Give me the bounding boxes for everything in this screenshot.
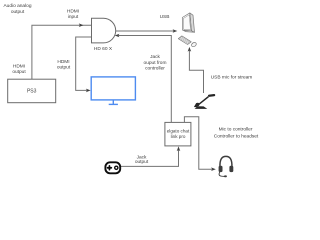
arrowhead right into headset [211, 167, 216, 171]
keyboard [178, 36, 191, 45]
capture card HD 60 X (AND-gate shape) [92, 18, 116, 43]
computer icon (3D monitor + keyboard + mouse) [178, 13, 196, 47]
svg-text:HDMI: HDMI [13, 64, 25, 70]
svg-text:output: output [135, 159, 149, 165]
svg-text:controller: controller [145, 66, 165, 72]
svg-text:PS3: PS3 [27, 89, 37, 95]
wire W2: HD60X HDMI output down-left to blue TV [76, 37, 92, 90]
wire W6: elgato chat link top to headset (mic/controller loop) [184, 117, 212, 170]
wire W7: controller jack output right and up into elgato box bottom [121, 150, 179, 167]
wire W5: elgato chat link top-left up to HD60X right input [118, 36, 171, 123]
right ear cup [229, 166, 233, 172]
mic joint [196, 103, 199, 106]
controller icon (pill with d-pad and button) [105, 162, 120, 173]
blue TV [91, 77, 135, 105]
svg-text:ouput from: ouput from [144, 60, 167, 66]
mic head capsule [208, 94, 216, 97]
boom mic capsule [224, 175, 227, 177]
svg-text:output: output [12, 69, 26, 75]
svg-text:link pro: link pro [171, 134, 186, 139]
inner screen [183, 15, 190, 30]
svg-text:output: output [11, 9, 25, 15]
wire W3: HD60X USB output right to computer [116, 30, 174, 32]
headset icon [219, 156, 234, 177]
button ring [115, 166, 118, 169]
mouse [191, 43, 196, 47]
monitor side depth [190, 13, 195, 32]
svg-text:Controller to headset: Controller to headset [214, 134, 259, 140]
monitor bottom depth [183, 30, 195, 32]
svg-text:output: output [57, 65, 71, 71]
svg-text:Mic to controller: Mic to controller [219, 127, 253, 133]
mic base [195, 106, 208, 109]
arrowhead down into elgato box top [183, 123, 187, 128]
svg-text:Jack: Jack [150, 54, 160, 60]
arrowhead left into gate curve [115, 34, 120, 38]
svg-text:Audio analog: Audio analog [3, 3, 31, 9]
arrowhead into computer [173, 29, 178, 33]
wire W1: PS3 HDMI output up and right to HD60X HDMI input [32, 25, 91, 79]
left ear cup [219, 166, 223, 172]
arrowhead up into computer bottom [188, 47, 192, 52]
d-pad plus [107, 165, 113, 171]
svg-text:HD 60 X: HD 60 X [94, 46, 113, 52]
arrowhead up into elgato box bottom [177, 146, 181, 151]
wire W4: USB mic up to computer [189, 50, 203, 93]
headband [220, 156, 232, 167]
USB desk microphone icon [194, 94, 215, 109]
arrowhead into TV left edge [86, 89, 91, 93]
elgato chat link pro box [165, 122, 191, 145]
svg-text:HDMI: HDMI [57, 59, 69, 65]
svg-text:USB mic for stream: USB mic for stream [211, 75, 253, 81]
PS3 console box [8, 79, 56, 103]
svg-text:USB: USB [160, 14, 170, 20]
svg-text:elgato chat: elgato chat [167, 128, 190, 133]
svg-text:input: input [68, 14, 79, 20]
monitor front [182, 13, 191, 31]
mic neck [197, 96, 209, 106]
arrowhead into HD60X top input [79, 23, 84, 27]
mic boom [219, 172, 225, 177]
svg-text:HDMI: HDMI [67, 8, 79, 14]
